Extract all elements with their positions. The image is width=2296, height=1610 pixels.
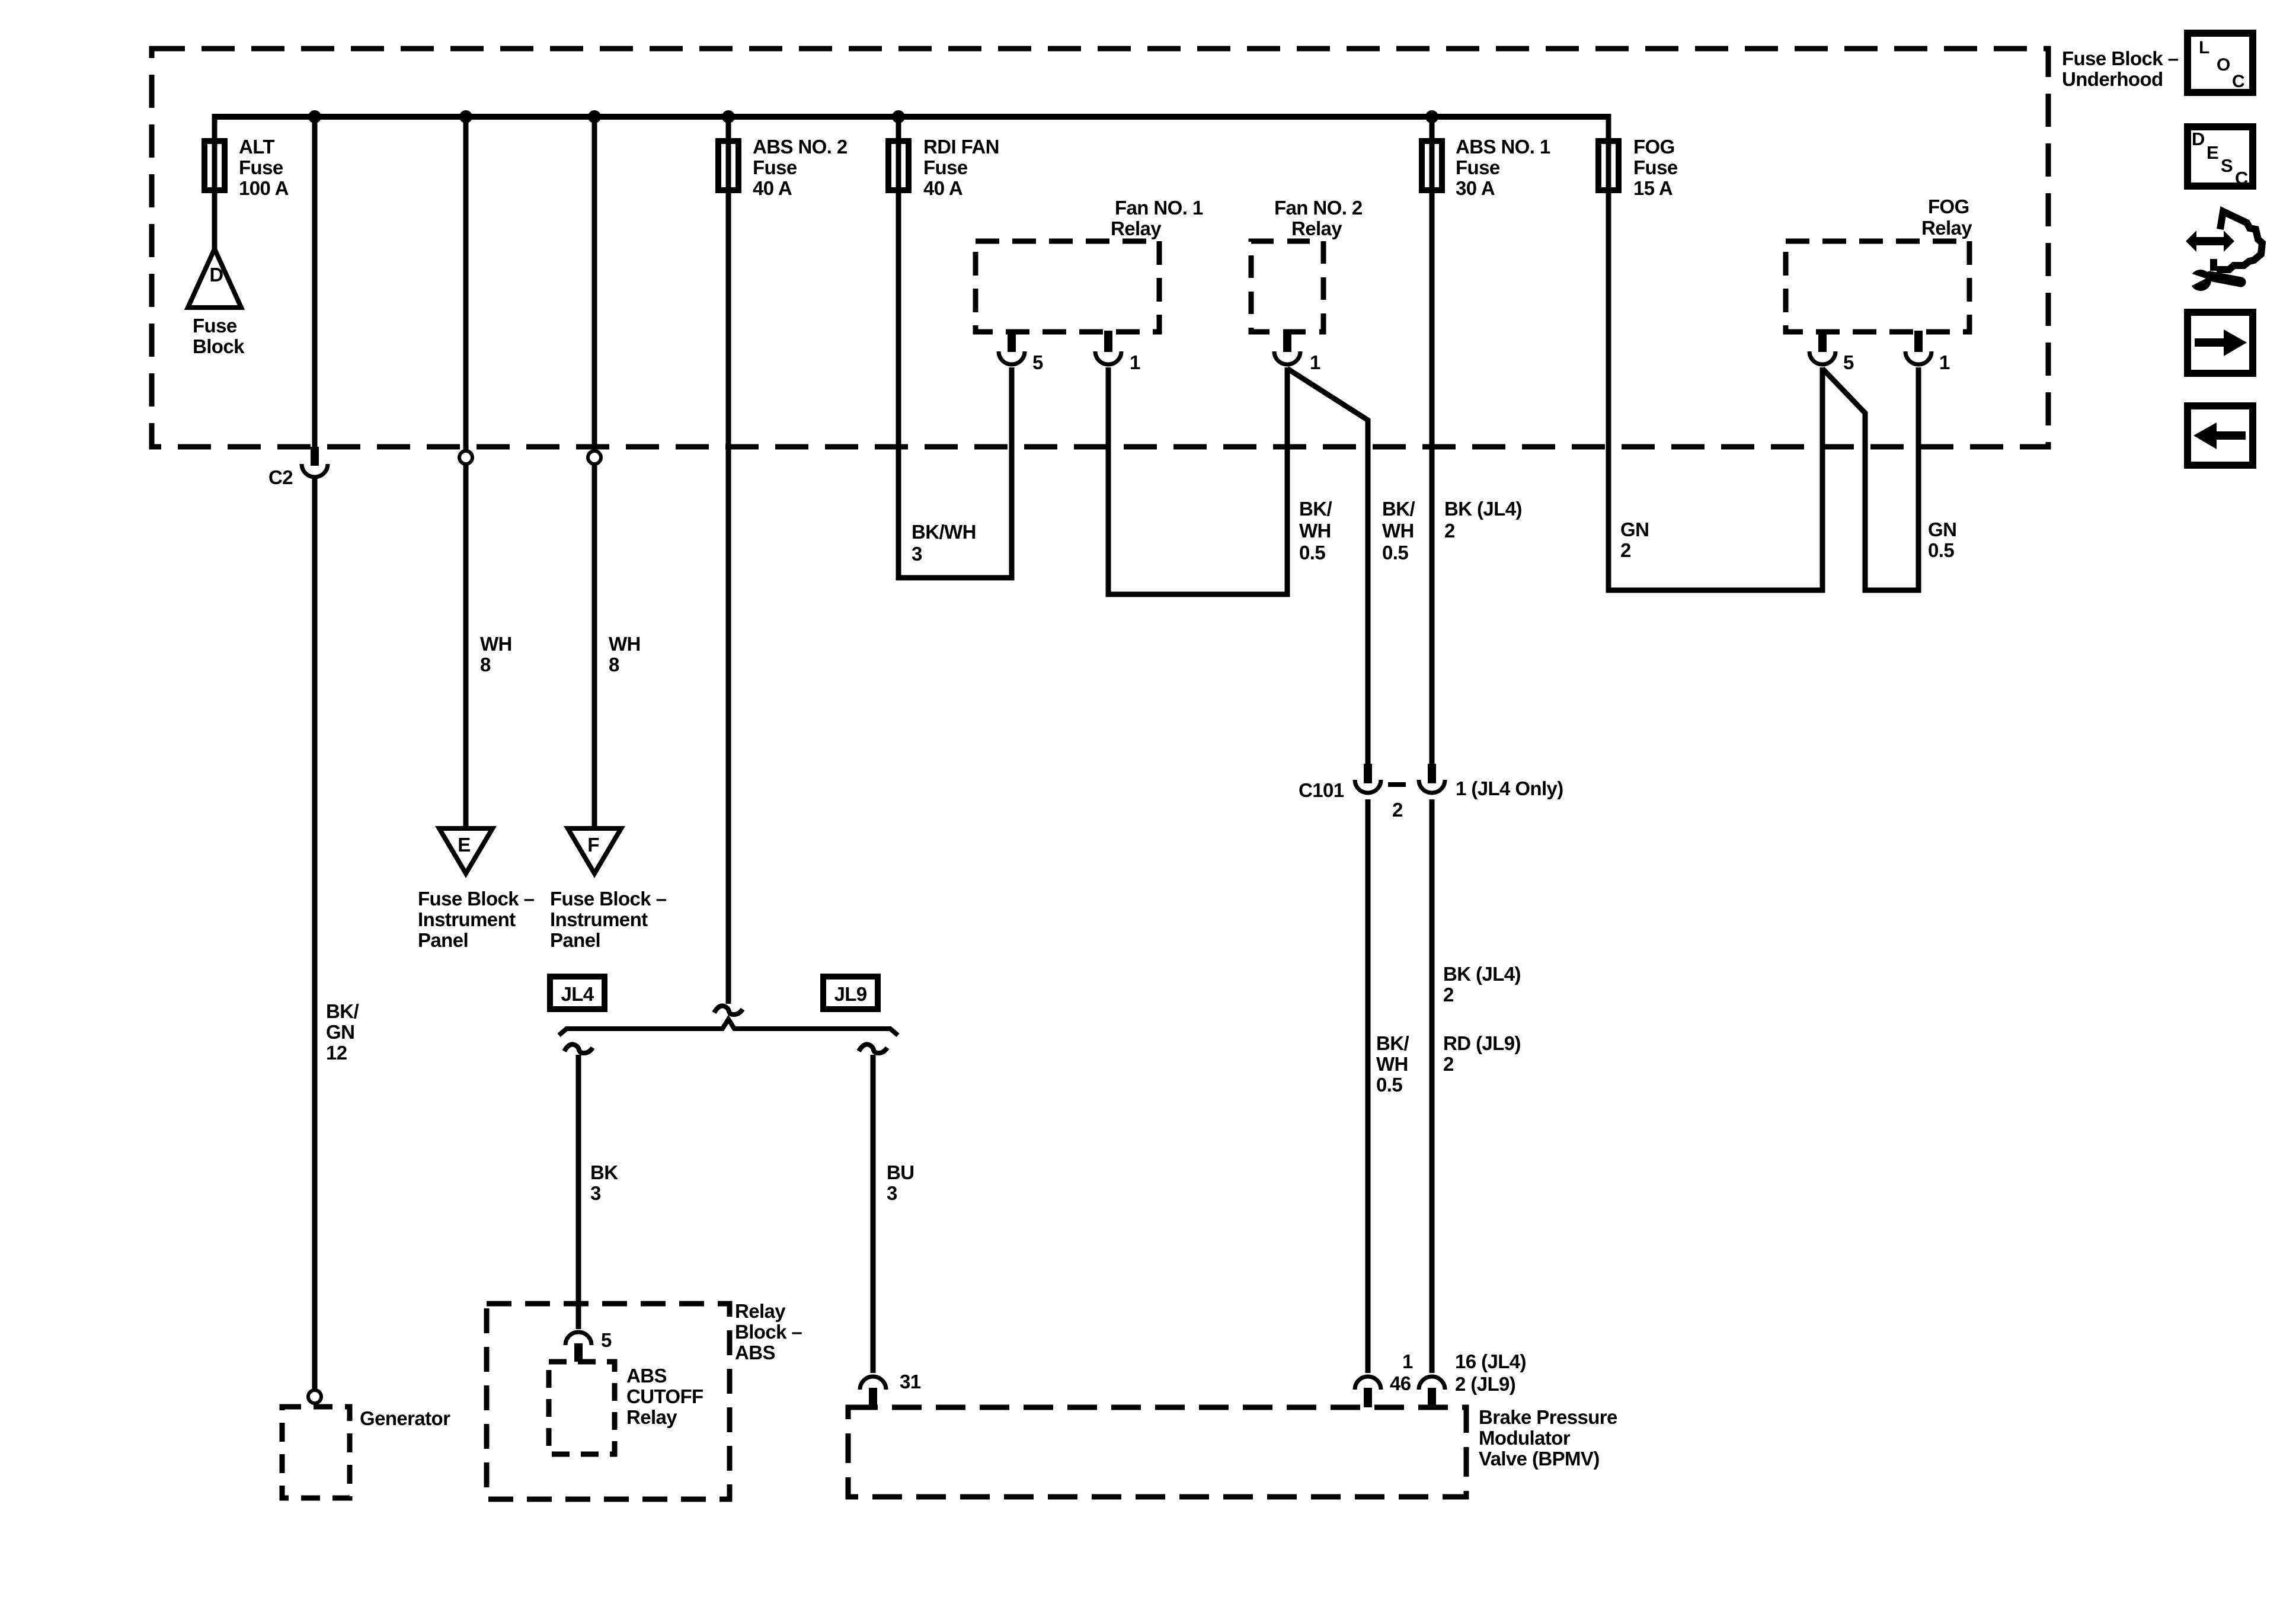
fuse RDI FAN 40A bbox=[888, 141, 909, 190]
icon prev-page arrow box bbox=[2188, 406, 2253, 465]
svg-text:BK/: BK/ bbox=[1299, 498, 1332, 520]
wire: splice option tilde (parent) bbox=[714, 1006, 743, 1014]
Relay Block - ABS dashed box bbox=[487, 1300, 802, 1499]
svg-text:CUTOFF: CUTOFF bbox=[626, 1385, 703, 1407]
svg-text:WH: WH bbox=[480, 633, 512, 655]
label GN 2 bbox=[1620, 518, 1649, 561]
svg-text:8: 8 bbox=[480, 654, 491, 676]
svg-text:C2: C2 bbox=[268, 466, 293, 488]
svg-text:FOG: FOG bbox=[1928, 196, 1969, 217]
svg-text:Fuse Block –: Fuse Block – bbox=[418, 888, 535, 910]
label Fuse Block - Underhood bbox=[2062, 47, 2179, 90]
svg-text:L: L bbox=[2199, 38, 2209, 57]
pin 46 BPMV bbox=[1355, 1350, 1413, 1407]
svg-text:1: 1 bbox=[1402, 1350, 1413, 1372]
fuse ABS NO.2 40A bbox=[718, 141, 738, 190]
svg-text:ALT: ALT bbox=[239, 136, 274, 158]
svg-text:Relay: Relay bbox=[1921, 217, 1972, 239]
label BK/WH 0.5 (left) bbox=[1299, 498, 1332, 564]
svg-text:Relay: Relay bbox=[1291, 217, 1342, 239]
label WH 8 (F) bbox=[609, 633, 641, 676]
icon next-page arrow box bbox=[2188, 312, 2253, 373]
label BK 3 bbox=[590, 1161, 618, 1204]
pin 1 FOG relay bbox=[1905, 331, 1950, 373]
svg-text:WH: WH bbox=[1376, 1053, 1408, 1075]
svg-text:D: D bbox=[209, 264, 223, 286]
svg-text:JL4: JL4 bbox=[561, 983, 594, 1005]
svg-text:Panel: Panel bbox=[550, 929, 600, 951]
wire: BK/GN 12 to generator bbox=[312, 479, 318, 1390]
svg-text:2: 2 bbox=[1443, 984, 1454, 1006]
svg-text:GN: GN bbox=[326, 1021, 354, 1043]
label BK/WH 0.5 (right) bbox=[1382, 498, 1415, 564]
svg-text:5: 5 bbox=[1843, 351, 1854, 373]
svg-text:Instrument: Instrument bbox=[550, 908, 648, 930]
pin 16/2 BPMV bbox=[1419, 1350, 1526, 1407]
label BK (JL4) 2 (below C101) bbox=[1443, 963, 1521, 1006]
svg-text:WH: WH bbox=[609, 633, 641, 655]
label BK/WH 0.5 (below C101) bbox=[1376, 1032, 1409, 1096]
label BK (JL4) 2 bbox=[1444, 498, 1522, 542]
svg-text:GN: GN bbox=[1928, 518, 1956, 540]
wire: ABS NO.1 fuse drop bbox=[1430, 114, 1435, 764]
icon DESC box bbox=[2188, 127, 2253, 188]
node: generator ring terminal bbox=[308, 1390, 321, 1403]
node: bus junction dots bbox=[308, 110, 1438, 123]
label FOG Relay bbox=[1921, 196, 1972, 239]
svg-text:BU: BU bbox=[887, 1161, 914, 1183]
fuse FOG 15A bbox=[1598, 141, 1619, 190]
connector C2 bbox=[268, 447, 328, 488]
label BK/WH 3 bbox=[912, 521, 976, 565]
triangle D (Fuse Block) bbox=[188, 249, 241, 308]
svg-text:Fuse: Fuse bbox=[923, 156, 968, 178]
label Fuse Block - Instrument Panel (F) bbox=[550, 888, 667, 951]
svg-text:RDI FAN: RDI FAN bbox=[923, 136, 999, 158]
svg-text:WH: WH bbox=[1382, 520, 1414, 542]
svg-text:Instrument: Instrument bbox=[418, 908, 516, 930]
node JL9 option box bbox=[823, 977, 878, 1009]
wire: ABS NO.2 fuse drop bbox=[726, 114, 731, 1004]
svg-text:1: 1 bbox=[1130, 351, 1140, 373]
relay Fan NO.1 dashed box bbox=[976, 241, 1159, 332]
svg-text:Block –: Block – bbox=[735, 1321, 802, 1343]
icon LOC box bbox=[2188, 33, 2253, 92]
svg-text:Fuse Block –: Fuse Block – bbox=[2062, 47, 2179, 69]
pin 1 Fan NO.1 bbox=[1095, 331, 1140, 373]
svg-text:C101: C101 bbox=[1299, 779, 1344, 801]
node: pass-through eyelet E bbox=[459, 451, 472, 464]
BPMV dashed box bbox=[848, 1406, 1617, 1497]
triangle E bbox=[439, 828, 493, 873]
svg-text:1: 1 bbox=[1310, 351, 1320, 373]
svg-text:Block: Block bbox=[193, 335, 245, 357]
connector C101 left half bbox=[1299, 764, 1403, 821]
svg-text:Relay: Relay bbox=[626, 1406, 677, 1428]
svg-text:BK/: BK/ bbox=[1382, 498, 1415, 520]
relay Fan NO.2 dashed box bbox=[1251, 241, 1323, 332]
svg-text:Fuse: Fuse bbox=[193, 315, 237, 337]
svg-text:2: 2 bbox=[1392, 799, 1403, 821]
svg-text:30 A: 30 A bbox=[1456, 177, 1495, 199]
svg-text:Fuse: Fuse bbox=[1633, 156, 1678, 178]
label RDI FAN Fuse 40 A bbox=[923, 136, 999, 199]
svg-text:Relay: Relay bbox=[1111, 217, 1162, 239]
wire: JL4 branch tilde bbox=[564, 1044, 593, 1053]
label FOG Fuse 15 A bbox=[1633, 136, 1678, 199]
svg-text:WH: WH bbox=[1299, 520, 1331, 542]
wire: WH 8 to E bbox=[463, 117, 469, 828]
label Fuse Block (under D) bbox=[193, 315, 245, 357]
svg-text:Modulator: Modulator bbox=[1479, 1427, 1571, 1449]
wire: Fan NO.1 pin1 to Fan NO.2 pin1 bbox=[1108, 367, 1287, 594]
wire: ALT fuse drop bbox=[212, 114, 218, 251]
svg-text:E: E bbox=[2207, 142, 2219, 163]
pin 5 ABS cutoff relay bbox=[565, 1329, 612, 1362]
wire: Fan NO.2 pin1 diagonal to C101 bbox=[1287, 369, 1368, 764]
ABS CUTOFF Relay dashed box bbox=[549, 1362, 703, 1454]
svg-text:Fuse Block –: Fuse Block – bbox=[550, 888, 667, 910]
icon hood outline bbox=[2214, 212, 2262, 271]
svg-text:3: 3 bbox=[887, 1182, 897, 1204]
connector C101 right half bbox=[1419, 764, 1563, 799]
label BU 3 bbox=[887, 1161, 914, 1204]
svg-text:ABS: ABS bbox=[626, 1365, 667, 1387]
svg-text:16 (JL4): 16 (JL4) bbox=[1455, 1350, 1526, 1372]
svg-text:8: 8 bbox=[609, 654, 619, 676]
wire: generator feed BK/GN 12 bbox=[312, 117, 318, 447]
svg-text:12: 12 bbox=[326, 1042, 347, 1064]
svg-text:GN: GN bbox=[1620, 518, 1649, 540]
label ABS NO.1 Fuse 30 A bbox=[1456, 136, 1550, 199]
svg-text:Panel: Panel bbox=[418, 929, 468, 951]
svg-text:BK/: BK/ bbox=[326, 1000, 359, 1022]
connector C101 separator dash bbox=[1388, 782, 1406, 787]
triangle F bbox=[568, 828, 621, 873]
wire: RDI FAN fuse drop bbox=[898, 114, 1012, 578]
svg-text:Fuse: Fuse bbox=[753, 156, 797, 178]
label BK/GN 12 bbox=[326, 1000, 359, 1064]
svg-text:Fuse: Fuse bbox=[1456, 156, 1500, 178]
label WH 8 (E) bbox=[480, 633, 512, 676]
relay FOG dashed box bbox=[1786, 241, 1969, 332]
node: pass-through eyelet F bbox=[588, 451, 601, 464]
fuse ABS NO.1 30A bbox=[1422, 141, 1442, 190]
wire: option brace JL4/JL9 bbox=[559, 1019, 898, 1035]
Fuse Block - Underhood dashed box bbox=[152, 49, 2048, 447]
svg-text:Underhood: Underhood bbox=[2062, 68, 2163, 90]
svg-text:1 (JL4 Only): 1 (JL4 Only) bbox=[1456, 777, 1563, 799]
svg-text:0.5: 0.5 bbox=[1928, 539, 1954, 561]
svg-text:0.5: 0.5 bbox=[1382, 542, 1408, 564]
svg-text:BK (JL4): BK (JL4) bbox=[1443, 963, 1521, 985]
svg-text:S: S bbox=[2221, 155, 2233, 176]
fuse ALT 100A bbox=[204, 141, 225, 190]
wire: JL9 branch tilde bbox=[859, 1044, 887, 1053]
label GN 0.5 bbox=[1928, 518, 1956, 561]
icon wrench bbox=[2185, 270, 2241, 291]
svg-text:BK (JL4): BK (JL4) bbox=[1444, 498, 1522, 520]
svg-text:5: 5 bbox=[601, 1329, 612, 1351]
wire: FOG fuse drop bbox=[1609, 114, 1822, 590]
icon hood double arrow bbox=[2186, 231, 2234, 252]
svg-text:0.5: 0.5 bbox=[1299, 542, 1325, 564]
svg-text:40 A: 40 A bbox=[753, 177, 792, 199]
svg-text:BK/: BK/ bbox=[1376, 1032, 1409, 1054]
pin 5 Fan NO.1 bbox=[999, 331, 1043, 373]
label ABS NO.2 Fuse 40 A bbox=[753, 136, 848, 199]
svg-text:Fuse: Fuse bbox=[239, 156, 283, 178]
svg-text:F: F bbox=[587, 834, 599, 856]
wire: top power bus bbox=[215, 114, 1609, 120]
svg-text:2: 2 bbox=[1444, 520, 1455, 542]
svg-text:ABS: ABS bbox=[735, 1342, 775, 1363]
wire: BK/WH 0.5 below C101 bbox=[1366, 799, 1371, 1373]
svg-text:Fan NO. 1: Fan NO. 1 bbox=[1115, 197, 1203, 219]
svg-text:31: 31 bbox=[900, 1371, 921, 1393]
label Fan NO.1 Relay bbox=[1111, 197, 1203, 239]
svg-text:C: C bbox=[2235, 168, 2248, 188]
svg-text:D: D bbox=[2192, 129, 2205, 149]
label RD (JL9) 2 bbox=[1443, 1032, 1521, 1075]
svg-text:ABS NO. 1: ABS NO. 1 bbox=[1456, 136, 1550, 158]
svg-text:RD (JL9): RD (JL9) bbox=[1443, 1032, 1521, 1054]
svg-text:E: E bbox=[458, 834, 470, 856]
wire: BU 3 to BPMV bbox=[871, 1055, 876, 1373]
node JL4 option box bbox=[550, 977, 605, 1009]
wire: BK(JL4)/RD(JL9) below C101 bbox=[1430, 799, 1435, 1373]
svg-text:46: 46 bbox=[1390, 1372, 1411, 1394]
svg-text:40 A: 40 A bbox=[923, 177, 962, 199]
svg-text:ABS NO. 2: ABS NO. 2 bbox=[753, 136, 848, 158]
label Fan NO.2 Relay bbox=[1274, 197, 1363, 239]
svg-text:Fan NO. 2: Fan NO. 2 bbox=[1274, 197, 1363, 219]
svg-text:5: 5 bbox=[1032, 351, 1043, 373]
svg-text:1: 1 bbox=[1939, 351, 1950, 373]
wire: GN 0.5 pin5 to pin1 bbox=[1822, 367, 1918, 590]
svg-text:BK/WH: BK/WH bbox=[912, 521, 976, 543]
pin 1 Fan NO.2 bbox=[1274, 331, 1320, 373]
label Fuse Block - Instrument Panel (E) bbox=[418, 888, 535, 951]
svg-text:BK: BK bbox=[590, 1161, 618, 1183]
svg-text:Brake Pressure: Brake Pressure bbox=[1479, 1406, 1617, 1428]
svg-text:2 (JL9): 2 (JL9) bbox=[1455, 1373, 1515, 1395]
Generator dashed box bbox=[282, 1407, 450, 1498]
svg-text:2: 2 bbox=[1443, 1053, 1454, 1075]
wire: BK 3 to ABS cutoff relay bbox=[576, 1055, 581, 1329]
svg-text:JL9: JL9 bbox=[834, 983, 866, 1005]
wire: WH 8 to F bbox=[592, 117, 597, 828]
svg-text:3: 3 bbox=[912, 543, 922, 565]
svg-text:Generator: Generator bbox=[360, 1407, 450, 1429]
svg-text:15 A: 15 A bbox=[1633, 177, 1673, 199]
svg-text:Valve (BPMV): Valve (BPMV) bbox=[1479, 1448, 1600, 1470]
svg-text:FOG: FOG bbox=[1633, 136, 1675, 158]
pin 31 BPMV bbox=[860, 1371, 921, 1407]
svg-text:3: 3 bbox=[590, 1182, 601, 1204]
svg-text:0.5: 0.5 bbox=[1376, 1074, 1402, 1096]
svg-text:O: O bbox=[2217, 55, 2230, 75]
svg-text:Relay: Relay bbox=[735, 1300, 786, 1322]
svg-text:100 A: 100 A bbox=[239, 177, 289, 199]
pin 5 FOG relay bbox=[1809, 331, 1854, 373]
svg-text:2: 2 bbox=[1620, 539, 1631, 561]
label ALT Fuse 100 A bbox=[239, 136, 289, 199]
svg-text:C: C bbox=[2232, 72, 2245, 91]
